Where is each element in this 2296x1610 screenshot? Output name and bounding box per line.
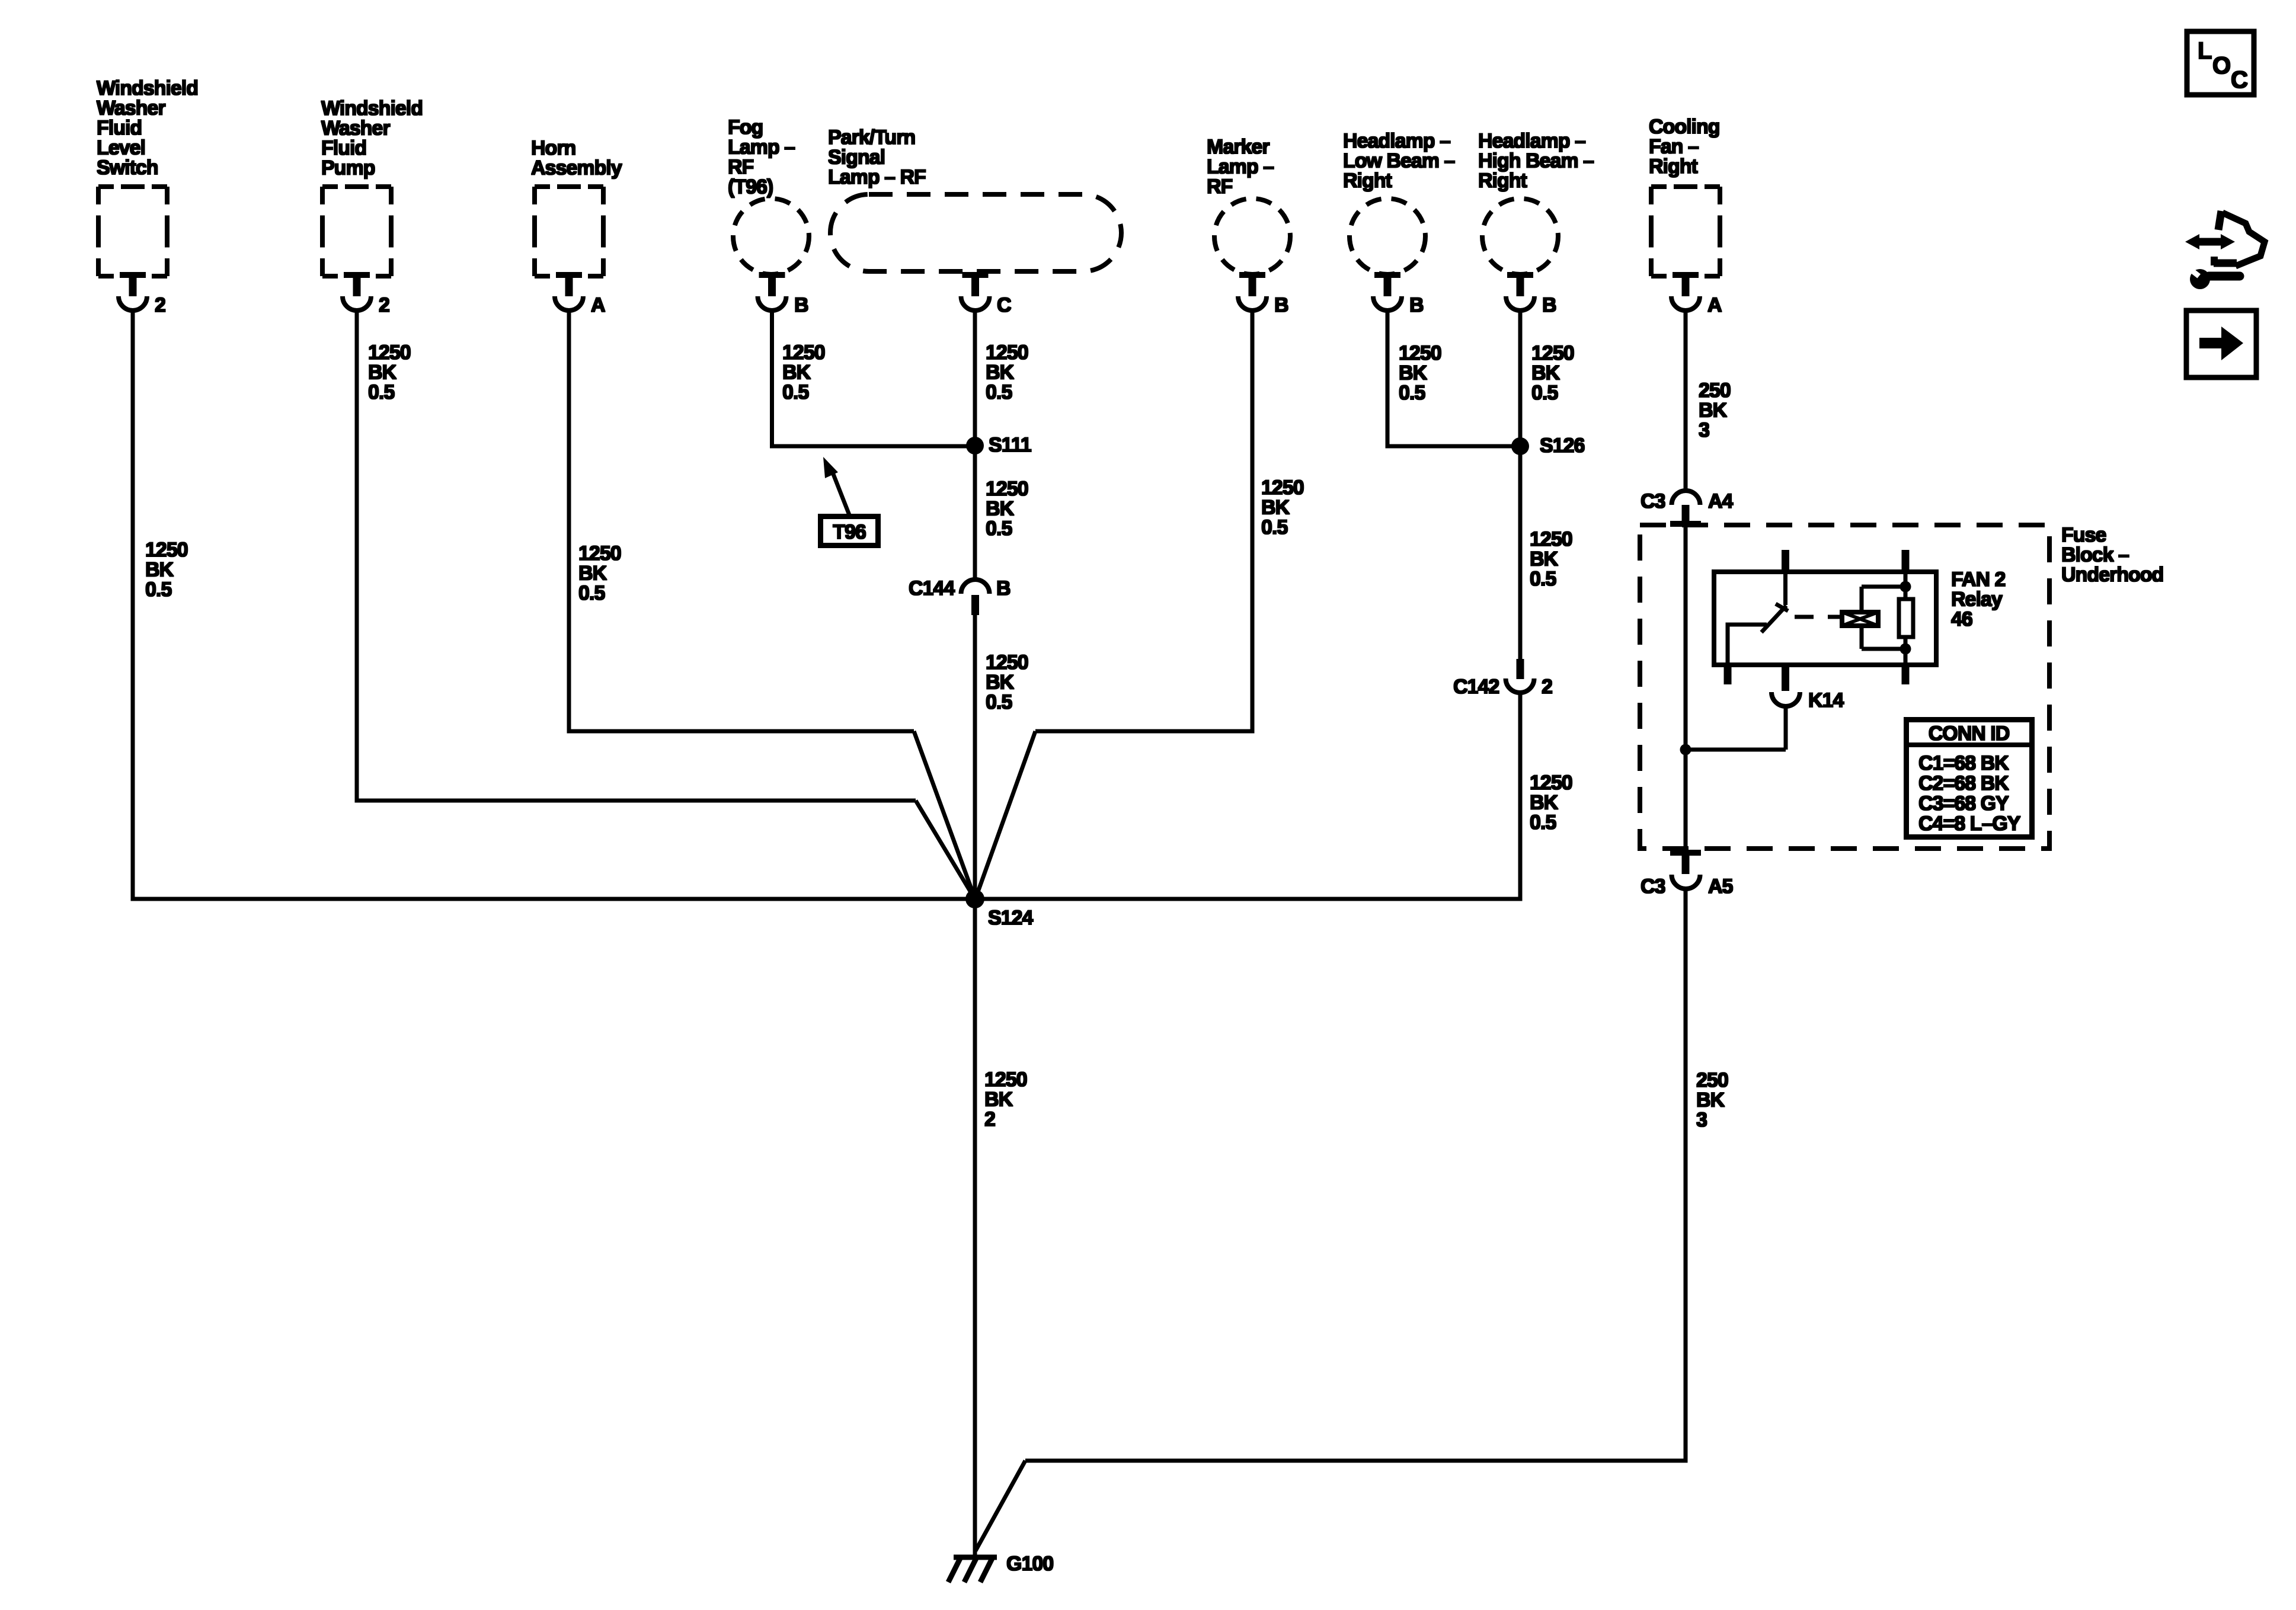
svg-text:0.5: 0.5 <box>1261 516 1287 539</box>
wire label 1250 BK 0.5 <box>1399 342 1441 404</box>
junction dot (coil bottom / resistor bottom) <box>1900 644 1911 655</box>
wire: high beam pin B to S126 <box>1518 308 1523 447</box>
svg-text:C2=68 BK: C2=68 BK <box>1918 772 2009 795</box>
svg-text:2: 2 <box>379 294 389 316</box>
connector pin level switch pin 2 <box>119 272 147 311</box>
svg-text:2: 2 <box>1542 676 1552 698</box>
svg-text:C3=68 GY: C3=68 GY <box>1918 792 2009 815</box>
svg-text:Pump: Pump <box>321 157 375 180</box>
component box: Horn Assembly <box>535 187 603 276</box>
wire label 250 BK 3 <box>1699 379 1731 441</box>
relay pin (bottom left, switch NO) <box>1724 664 1732 684</box>
svg-text:0.5: 0.5 <box>1530 811 1556 834</box>
wire: horn horizontal run <box>567 729 914 734</box>
component box: Windshield Washer Fluid Level Switch <box>98 187 167 276</box>
svg-text:FAN 2: FAN 2 <box>1951 568 2005 591</box>
svg-text:Headlamp –: Headlamp – <box>1478 130 1585 152</box>
wire label 1250 BK 2 <box>984 1068 1027 1131</box>
svg-text:BK: BK <box>782 361 811 384</box>
connector K14 (relay output) <box>1771 665 1800 706</box>
svg-text:Cooling: Cooling <box>1649 116 1720 138</box>
wire: pump pin 2 down <box>355 308 359 803</box>
svg-text:Lamp – RF: Lamp – RF <box>828 166 926 188</box>
wire: fog lamp horizontal to S111 <box>770 444 975 449</box>
svg-text:C4=8 L–GY: C4=8 L–GY <box>1918 812 2021 835</box>
component label: Headlamp High Beam Right <box>1478 130 1594 192</box>
svg-text:3: 3 <box>1696 1109 1707 1131</box>
wire: C144 to S124 <box>973 615 977 899</box>
connector pin low beam pin B <box>1373 272 1402 311</box>
svg-text:BK: BK <box>1261 497 1290 519</box>
svg-text:1250: 1250 <box>145 539 188 561</box>
component circle: Headlamp - Low Beam - Right <box>1350 199 1425 274</box>
svg-text:Fog: Fog <box>728 116 763 139</box>
svg-text:0.5: 0.5 <box>1530 568 1556 590</box>
svg-text:BK: BK <box>368 361 397 384</box>
svg-text:G100: G100 <box>1006 1553 1053 1575</box>
component label: Fog Lamp RF (T96) <box>728 116 795 199</box>
svg-text:BK: BK <box>986 671 1015 694</box>
svg-text:BK: BK <box>578 562 607 585</box>
svg-text:Underhood: Underhood <box>2061 564 2163 586</box>
component circle: Headlamp - High Beam - Right <box>1482 199 1558 274</box>
svg-text:0.5: 0.5 <box>578 582 605 604</box>
callout box T96 <box>821 517 878 546</box>
junction dot on main feed <box>1680 744 1691 756</box>
splice S111 <box>966 437 984 454</box>
svg-text:2: 2 <box>155 294 165 316</box>
svg-text:1250: 1250 <box>578 542 621 565</box>
wire: left horizontal into S124 <box>131 897 976 901</box>
svg-text:A4: A4 <box>1708 490 1734 513</box>
svg-text:BK: BK <box>1531 362 1560 385</box>
splice S126 <box>1511 437 1529 455</box>
wire label 1250 BK 0.5 <box>1261 476 1304 539</box>
wire label 1250 BK 0.5 <box>986 341 1028 404</box>
connector pin high beam pin B <box>1506 272 1534 311</box>
component box: Windshield Washer Fluid Pump <box>322 187 391 276</box>
svg-text:Relay: Relay <box>1951 588 2003 611</box>
callout arrow to T96 circuit <box>823 457 849 515</box>
svg-text:B: B <box>1409 294 1424 316</box>
relay switch contact <box>1761 572 1788 632</box>
svg-text:T96: T96 <box>833 521 866 543</box>
svg-text:A5: A5 <box>1708 875 1733 898</box>
svg-text:RF: RF <box>1207 175 1233 198</box>
svg-text:BK: BK <box>986 498 1015 520</box>
wire: bottom horizontal run to ground <box>1025 1459 1688 1463</box>
component circle: Fog Lamp - RF <box>733 199 809 274</box>
svg-text:0.5: 0.5 <box>986 691 1012 713</box>
svg-text:CONN ID: CONN ID <box>1929 722 2010 745</box>
wire label 1250 BK 0.5 <box>986 651 1028 713</box>
svg-text:A: A <box>591 294 605 316</box>
svg-text:BK: BK <box>986 361 1015 384</box>
icon: repair instructions (animal head, arrow, wrench) <box>2185 211 2265 289</box>
svg-text:Park/Turn: Park/Turn <box>828 126 915 149</box>
svg-text:BK: BK <box>1530 792 1559 814</box>
wire label 1250 BK 0.5 <box>145 539 188 601</box>
wire: diagonal into ground wire <box>976 1461 1025 1551</box>
svg-text:2: 2 <box>984 1108 995 1131</box>
relay coil (box with X) <box>1842 612 1878 626</box>
svg-text:S111: S111 <box>989 434 1031 456</box>
svg-text:BK: BK <box>1399 362 1428 385</box>
wire: marker horizontal run <box>1035 729 1255 734</box>
connector C144 (inline) <box>961 580 990 615</box>
wire: cooling fan pin A to C3 A4 <box>1684 308 1688 492</box>
component label: Windshield Washer Fluid Pump <box>321 97 423 180</box>
wire: fog lamp pin B down <box>770 308 774 449</box>
connector pin fog lamp pin B <box>758 272 786 311</box>
svg-text:B: B <box>1542 294 1556 316</box>
svg-text:Level: Level <box>97 137 145 159</box>
svg-text:C144: C144 <box>909 577 955 600</box>
wire: horn diagonal into S124 <box>914 731 976 900</box>
svg-text:RF: RF <box>728 156 754 178</box>
wire: marker diagonal into S124 <box>975 731 1035 900</box>
wire: S124 to ground G100 <box>973 899 977 1558</box>
svg-text:Marker: Marker <box>1207 136 1269 158</box>
connector pin horn pin A <box>555 272 583 311</box>
component box: Cooling Fan - Right <box>1651 187 1720 276</box>
wire: low beam horizontal to S126 <box>1386 444 1521 449</box>
wire: main feed through fuse block <box>1684 526 1688 850</box>
relay pin (top right, coil +) <box>1902 550 1910 573</box>
wire: coil top link <box>1862 587 1905 610</box>
component label: Park/Turn Signal Lamp RF <box>828 126 926 188</box>
component label: Headlamp Low Beam Right <box>1343 130 1454 192</box>
svg-text:Right: Right <box>1649 155 1698 178</box>
svg-text:1250: 1250 <box>984 1068 1027 1091</box>
connector pin pump pin 2 <box>343 272 371 311</box>
svg-text:Fluid: Fluid <box>321 137 366 159</box>
svg-text:Low Beam –: Low Beam – <box>1343 150 1454 172</box>
svg-text:Lamp –: Lamp – <box>728 136 795 159</box>
relay actuation dashed link <box>1795 615 1840 619</box>
wire label 1250 BK 0.5 <box>1530 528 1572 590</box>
svg-text:Washer: Washer <box>97 97 165 120</box>
fuse block outline (dashed): Fuse Block Underhood <box>1640 525 2049 849</box>
svg-text:1250: 1250 <box>1530 772 1572 794</box>
relay pin (bottom middle, to K14) <box>1782 664 1789 684</box>
component circle: Marker Lamp - RF <box>1214 199 1290 274</box>
ground G100 <box>948 1557 997 1582</box>
splice S124 <box>965 889 984 908</box>
svg-text:BK: BK <box>1530 548 1559 571</box>
svg-text:O: O <box>2212 53 2230 79</box>
svg-text:C: C <box>997 294 1011 316</box>
wire label 250 BK 3 <box>1696 1069 1728 1131</box>
svg-text:Switch: Switch <box>97 156 158 179</box>
wire: low beam pin B down <box>1386 308 1390 449</box>
component label: Marker Lamp RF <box>1207 136 1274 198</box>
svg-text:High Beam –: High Beam – <box>1478 150 1594 172</box>
relay pin (bottom right, coil -) <box>1902 664 1910 684</box>
svg-text:1250: 1250 <box>1531 342 1574 364</box>
connector C3 pin A4 (fuse block top) <box>1670 491 1701 527</box>
wire: pump diagonal into S124 <box>916 801 976 900</box>
svg-text:S126: S126 <box>1540 434 1584 457</box>
connector C3 pin A5 (fuse block bottom) <box>1670 850 1701 889</box>
svg-text:B: B <box>996 577 1011 600</box>
relay K14 FAN 2 outline <box>1714 572 1936 665</box>
fuse block label <box>2061 524 2163 586</box>
svg-text:1250: 1250 <box>986 651 1028 674</box>
svg-text:C3: C3 <box>1641 490 1665 513</box>
svg-text:Windshield: Windshield <box>321 97 423 120</box>
wire label 1250 BK 0.5 <box>368 341 411 404</box>
wire: coil bottom link <box>1862 628 1905 649</box>
svg-text:B: B <box>1274 294 1288 316</box>
component label: Cooling Fan Right <box>1649 116 1720 178</box>
wire: right horizontal into S124 <box>975 897 1523 901</box>
svg-text:0.5: 0.5 <box>986 517 1012 540</box>
svg-text:0.5: 0.5 <box>986 381 1012 404</box>
svg-text:Washer: Washer <box>321 117 390 140</box>
svg-text:1250: 1250 <box>782 341 825 364</box>
svg-text:0.5: 0.5 <box>782 381 808 404</box>
svg-text:1250: 1250 <box>368 341 411 364</box>
svg-text:BK: BK <box>1699 399 1728 422</box>
svg-text:Windshield: Windshield <box>97 77 198 100</box>
wire: resistor connections <box>1904 572 1908 665</box>
component label: Horn Assembly <box>531 137 622 180</box>
svg-text:A: A <box>1707 294 1722 316</box>
svg-text:0.5: 0.5 <box>368 381 394 404</box>
svg-text:L: L <box>2198 38 2212 64</box>
svg-text:BK: BK <box>1696 1089 1725 1112</box>
wire: S111 to C144 <box>973 446 977 581</box>
wire: C3 A5 down <box>1684 888 1688 1461</box>
connector pin cooling fan pin A <box>1671 272 1700 311</box>
connector pin marker lamp pin B <box>1238 272 1267 311</box>
svg-text:Lamp –: Lamp – <box>1207 156 1274 178</box>
junction dot (coil top / resistor top) <box>1900 581 1911 593</box>
svg-text:250: 250 <box>1699 379 1731 402</box>
svg-text:C: C <box>2231 67 2247 93</box>
svg-text:C3: C3 <box>1641 875 1665 898</box>
svg-text:0.5: 0.5 <box>1531 382 1558 404</box>
svg-text:Fuse: Fuse <box>2061 524 2106 546</box>
wire label 1250 BK 0.5 <box>986 478 1028 540</box>
wire label 1250 BK 0.5 <box>1531 342 1574 404</box>
wire label 1250 BK 0.5 <box>578 542 621 604</box>
svg-text:Right: Right <box>1478 169 1527 192</box>
relay switch stationary contact wire <box>1726 625 1767 665</box>
wire: pump horizontal run to S124 <box>355 799 916 803</box>
svg-text:3: 3 <box>1699 419 1709 441</box>
wire: marker lamp pin B down <box>1251 308 1255 734</box>
svg-text:1250: 1250 <box>986 341 1028 364</box>
wire: horn pin A down <box>567 308 571 734</box>
svg-text:Fluid: Fluid <box>97 117 142 139</box>
wire: level switch pin 2 to S124 (vertical) <box>131 308 135 901</box>
connector C142 (inline) <box>1506 659 1534 693</box>
svg-text:1250: 1250 <box>1530 528 1572 550</box>
connector pin park/turn pin C <box>961 272 990 311</box>
svg-text:1250: 1250 <box>1399 342 1441 364</box>
svg-text:0.5: 0.5 <box>1399 382 1425 404</box>
svg-text:1250: 1250 <box>986 478 1028 500</box>
svg-text:Fan –: Fan – <box>1649 136 1699 158</box>
wire: park/turn pin C to S111 <box>973 308 977 447</box>
svg-text:Horn: Horn <box>531 137 575 159</box>
svg-text:Block –: Block – <box>2061 544 2129 566</box>
svg-text:1250: 1250 <box>1261 476 1304 499</box>
svg-text:46: 46 <box>1951 608 1972 630</box>
relay pin (top left, switch common) <box>1782 550 1789 573</box>
svg-text:K14: K14 <box>1808 689 1844 712</box>
wire label 1250 BK 0.5 <box>782 341 825 404</box>
wire: S126 to C142 <box>1518 446 1523 660</box>
svg-text:S124: S124 <box>988 907 1033 929</box>
svg-text:Right: Right <box>1343 169 1392 192</box>
svg-text:0.5: 0.5 <box>145 578 171 601</box>
svg-text:Headlamp –: Headlamp – <box>1343 130 1450 152</box>
svg-text:BK: BK <box>145 559 174 581</box>
CONN ID table <box>1907 720 2032 837</box>
svg-text:BK: BK <box>984 1089 1013 1111</box>
wire: C142 down to S124 horizontal <box>1518 692 1523 901</box>
component label: Windshield Washer Fluid Level Switch <box>97 77 198 179</box>
wire label 1250 BK 0.5 <box>1530 772 1572 834</box>
svg-text:250: 250 <box>1696 1069 1728 1092</box>
component outline: Park/Turn Signal Lamp (stadium) <box>830 194 1121 271</box>
icon: LOC reference box <box>2187 31 2254 95</box>
resistor (relay suppression) <box>1899 599 1913 637</box>
svg-text:Assembly: Assembly <box>531 157 622 180</box>
relay label FAN 2 Relay 46 <box>1951 568 2005 630</box>
svg-text:(T96): (T96) <box>728 176 773 199</box>
svg-text:B: B <box>794 294 808 316</box>
svg-text:Signal: Signal <box>828 146 885 169</box>
svg-text:C142: C142 <box>1453 676 1499 698</box>
wire: K14 to main feed <box>1686 706 1786 750</box>
svg-text:C1=68 BK: C1=68 BK <box>1918 752 2009 774</box>
icon: forward reference arrow box <box>2186 311 2256 377</box>
